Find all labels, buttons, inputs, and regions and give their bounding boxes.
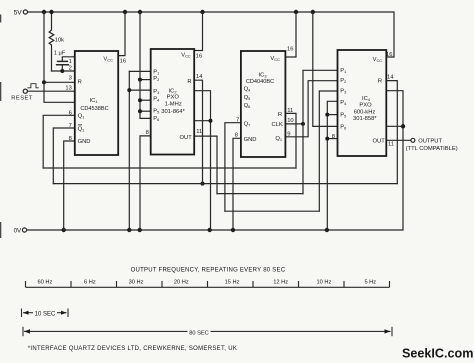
svg-text:301-864*: 301-864*	[161, 109, 185, 115]
svg-text:Q7: Q7	[244, 121, 251, 127]
wire IC3 pin16 Vcc	[285, 12, 296, 57]
wire IC2 P3	[129, 89, 150, 91]
svg-text:5V: 5V	[14, 10, 23, 17]
wire IC4 P3 to bus5	[319, 91, 337, 211]
node CLK dot (303,123.9)	[301, 122, 305, 126]
node IC2 P4 dot (140,100.2)	[138, 98, 142, 102]
wire bus3 OUT of IC2 to CLK of IC3	[217, 193, 303, 195]
node IC4 P5 dot (327.3,114.6)	[325, 113, 329, 117]
svg-text:2: 2	[69, 66, 72, 72]
svg-text:8: 8	[69, 136, 72, 142]
IC2 PXO 1-MHz box	[151, 49, 195, 155]
svg-text:13: 13	[65, 86, 71, 92]
node cap junction (62.3,71)	[60, 69, 64, 73]
node 5V rail dot x125	[123, 10, 127, 14]
svg-text:OUTPUT FREQUENCY, REPEATING EV: OUTPUT FREQUENCY, REPEATING EVERY 80 SEC	[131, 267, 286, 273]
svg-text:16: 16	[287, 46, 293, 52]
svg-text:20 Hz: 20 Hz	[174, 280, 189, 286]
svg-text:IC4: IC4	[362, 96, 371, 102]
svg-text:(TTL COMPATIBLE): (TTL COMPATIBLE)	[406, 146, 458, 152]
svg-text:10: 10	[287, 118, 293, 124]
svg-text:3: 3	[69, 76, 72, 82]
wire IC1 pin3	[44, 81, 75, 83]
IC boxes	[75, 49, 387, 157]
node 5V rail dot x312.8	[311, 10, 315, 14]
wire IC4 pin11 OUT to OUTPUT terminal	[386, 139, 411, 141]
wire IC4 P4/P5/GND to 0V	[327, 101, 337, 230]
wire IC3 pin8 GND to 0V	[233, 138, 241, 230]
wire 5V drop to IC1 pin3/pin4	[44, 12, 75, 102]
svg-text:P6: P6	[340, 125, 346, 131]
svg-text:VCC: VCC	[270, 56, 280, 62]
node 0V rail dot x63.7	[62, 228, 66, 232]
pulse symbol at RESET	[28, 84, 39, 88]
frequency scale line	[26, 286, 390, 288]
svg-text:16: 16	[196, 53, 202, 59]
node 0V rail dot x209.7	[208, 228, 212, 232]
svg-text:SeekIC.com: SeekIC.com	[402, 347, 473, 361]
svg-text:14: 14	[196, 74, 203, 80]
svg-text:6 Hz: 6 Hz	[84, 280, 96, 286]
svg-text:P5: P5	[340, 112, 346, 118]
node IC2 P2 dot (140,79.6)	[138, 78, 142, 82]
wire IC4 P5	[327, 114, 337, 116]
node 5V rail dot x51.5	[49, 10, 53, 14]
node 5V rail dot x140	[138, 10, 142, 14]
wire IC1 pin2	[52, 70, 75, 72]
svg-text:*INTERFACE QUARTZ DEVICES LTD,: *INTERFACE QUARTZ DEVICES LTD, CREWKERNE…	[28, 346, 237, 352]
svg-text:1: 1	[69, 59, 72, 65]
svg-text:P1: P1	[153, 70, 159, 76]
svg-text:5 Hz: 5 Hz	[364, 280, 376, 286]
wire 5V drop to IC4 P6	[313, 12, 338, 126]
terminal 5V	[23, 10, 27, 14]
svg-text:RESET: RESET	[11, 96, 33, 102]
svg-text:GND: GND	[244, 137, 257, 143]
wire IC2 pin14 R to bus2	[194, 80, 202, 183]
svg-text:30 Hz: 30 Hz	[129, 280, 144, 286]
wire RESET to IC1 pin13	[27, 90, 74, 92]
svg-text:VCC: VCC	[103, 56, 113, 62]
wire IC2 P2	[140, 79, 151, 81]
capacitor C1 plates	[57, 61, 69, 64]
svg-text:IC1: IC1	[90, 98, 98, 104]
svg-text:9: 9	[287, 131, 290, 137]
svg-text:Q5: Q5	[244, 95, 251, 101]
wire IC2 P4	[140, 99, 151, 101]
wire IC1 pin8 GND to 0V	[64, 141, 75, 230]
svg-text:8: 8	[332, 134, 335, 140]
wire 0V rail	[27, 91, 403, 230]
node 0V riser dot (403,126.3)	[401, 124, 405, 128]
svg-text:OUT: OUT	[373, 138, 386, 144]
wire IC2 pin16 Vcc	[194, 12, 202, 51]
node 5V rail dot x202.5	[200, 10, 204, 14]
svg-text:R: R	[187, 79, 191, 85]
IC4 PXO 600-kHz box	[338, 50, 387, 156]
node dot (210.5,120.7)	[209, 119, 213, 123]
svg-text:P1: P1	[340, 68, 346, 74]
node bus2 dot (202.5,183.6)	[201, 182, 205, 186]
node IC1 pin3 dot (44,82.3)	[42, 80, 46, 84]
wire IC2 pin15 to 0V drop	[194, 91, 210, 230]
svg-text:P4: P4	[153, 96, 160, 102]
node IC2 P5 dot (140,111.2)	[138, 109, 142, 113]
svg-text:P2: P2	[153, 76, 159, 82]
svg-text:11: 11	[196, 129, 202, 135]
capacitor C1 bottom lead	[61, 65, 63, 71]
scan artifact left edge marks	[0, 15, 1, 23]
wire IC2 pin11 OUT to bus3	[194, 136, 217, 194]
node 0V rail dot x139.7	[138, 228, 142, 232]
wire bus3 riser to IC4 P1	[303, 70, 338, 193]
IC1 CD4538BC box	[75, 51, 118, 155]
svg-text:301-858*: 301-858*	[353, 116, 377, 122]
svg-text:Q1: Q1	[78, 113, 85, 119]
wire IC4 pin8 GND	[327, 138, 337, 140]
terminal RESET	[23, 89, 27, 93]
svg-text:16: 16	[120, 59, 126, 65]
svg-text:16: 16	[386, 52, 392, 58]
svg-text:12 Hz: 12 Hz	[273, 280, 288, 286]
wire IC4 pin(126.3) to 0V riser	[386, 125, 403, 127]
svg-text:15 Hz: 15 Hz	[225, 280, 240, 286]
svg-text:P4: P4	[340, 100, 347, 106]
wire IC2 P1	[129, 70, 150, 72]
node IC2 P3 dot (129.3,90.1)	[127, 88, 131, 92]
svg-text:R: R	[378, 79, 382, 85]
svg-text:P2: P2	[340, 78, 346, 84]
svg-text:Q6: Q6	[244, 103, 251, 109]
10 SEC dimension marker	[22, 309, 69, 318]
wire IC2 pin12 to 0V drop	[194, 120, 210, 122]
svg-text:CD4040BC: CD4040BC	[246, 79, 274, 85]
svg-text:P6: P6	[153, 116, 159, 122]
svg-text:1 μF: 1 μF	[54, 51, 66, 57]
svg-text:14: 14	[387, 74, 394, 80]
svg-text:IC3: IC3	[259, 72, 267, 78]
svg-text:OUTPUT: OUTPUT	[418, 139, 442, 145]
svg-text:8: 8	[146, 130, 149, 136]
wire bus1 Q1 of IC1 to R of IC3	[43, 167, 296, 169]
wire IC1 pin7 Q1bar to bus2	[53, 128, 75, 184]
wire IC4 pin14 R to bus2	[386, 81, 397, 184]
wire IC2 P5	[140, 110, 151, 112]
wire IC2 pin8 GND to 0V	[140, 136, 151, 230]
wire bus5 Q7 of IC3 to P3 of IC4	[225, 210, 319, 212]
svg-text:R: R	[278, 112, 282, 118]
svg-text:6: 6	[69, 110, 72, 116]
node 5V rail dot x44	[42, 10, 46, 14]
wire 0V drop for IC2 P1/P3	[128, 71, 130, 230]
svg-text:CLK: CLK	[272, 122, 283, 128]
wire IC3 pin7 Q7 to bus5	[225, 123, 241, 212]
frequency scale ticks	[26, 281, 390, 287]
node 0V rail dot x129.3	[127, 228, 131, 232]
svg-text:VCC: VCC	[181, 52, 191, 58]
svg-text:P3: P3	[340, 89, 346, 95]
svg-text:0V: 0V	[14, 228, 22, 235]
svg-text:8: 8	[235, 132, 238, 138]
IC3 CD4040BC box	[241, 51, 286, 157]
wire IC1 pin16 Vcc	[118, 12, 125, 56]
svg-text:7: 7	[236, 117, 239, 123]
svg-text:10 Hz: 10 Hz	[316, 280, 331, 286]
resistor R1 10k	[49, 14, 54, 71]
svg-text:11: 11	[388, 141, 394, 147]
svg-text:Q1: Q1	[275, 136, 282, 142]
wire IC3 pin9 Q1 to IC4 P2	[285, 81, 337, 137]
wire bus2 Q1bar to R of IC2 and IC4	[53, 183, 397, 185]
svg-text:1-MHz: 1-MHz	[165, 101, 182, 107]
svg-text:10 SEC: 10 SEC	[35, 311, 56, 317]
capacitor C1 1uF top lead + pin1 wire	[62, 57, 75, 62]
svg-text:60 Hz: 60 Hz	[37, 280, 52, 286]
svg-text:P3: P3	[153, 89, 159, 95]
wire 5V rail	[28, 12, 395, 57]
wire IC1 pin6 Q1 to bus1	[43, 115, 75, 168]
svg-text:CD4538BC: CD4538BC	[80, 106, 108, 112]
node IC4 GND dot (327.3,138.6)	[325, 137, 329, 141]
svg-text:Q1: Q1	[78, 126, 85, 132]
svg-text:7: 7	[69, 123, 72, 129]
80 SEC dimension marker	[23, 327, 392, 336]
svg-text:80 SEC: 80 SEC	[189, 330, 209, 336]
node 0V rail dot x233	[231, 228, 235, 232]
svg-text:PXO: PXO	[359, 103, 372, 109]
svg-text:PXO: PXO	[167, 95, 180, 101]
svg-text:GND: GND	[78, 139, 91, 145]
node 5V rail dot x296	[294, 10, 298, 14]
svg-text:11: 11	[287, 108, 293, 114]
node 0V rail dot x326.9	[325, 228, 329, 232]
wire 5V drop for IC2 P2/P4/P5/P6	[140, 12, 151, 118]
terminal OUTPUT	[411, 138, 415, 142]
svg-text:VCC: VCC	[373, 57, 383, 63]
svg-text:10k: 10k	[55, 38, 64, 44]
svg-text:Q4: Q4	[244, 87, 252, 93]
svg-text:600-kHz: 600-kHz	[354, 110, 376, 116]
svg-text:OUT: OUT	[180, 135, 193, 141]
terminal 0V	[22, 228, 26, 232]
wire IC3 pin10 CLK	[285, 123, 303, 125]
svg-text:P5: P5	[153, 108, 159, 114]
wire IC3 pin11 R to bus1	[285, 113, 296, 168]
svg-text:R: R	[78, 79, 82, 85]
svg-text:IC2: IC2	[169, 88, 177, 94]
